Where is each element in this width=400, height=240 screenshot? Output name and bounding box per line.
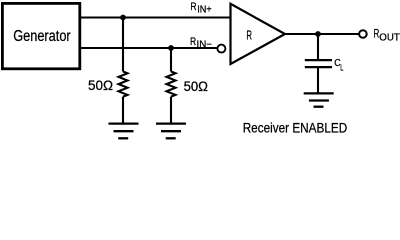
resistor R2 50ohm [167,72,176,97]
wire resistor R2 top lead [170,48,172,72]
ground G1 [109,124,139,139]
op-amp receiver R triangle [231,4,286,64]
wire capacitor CL bottom lead [317,68,319,93]
resistor R1 50ohm [119,72,128,97]
svg-text:IN+: IN+ [197,5,212,16]
svg-text:R: R [246,28,252,42]
node junction dot on RIN- [168,45,174,51]
wire output [285,33,359,35]
label RIN- [190,36,212,51]
label ROUT [374,26,400,43]
node junction dot on output [315,31,321,37]
svg-text:R: R [190,1,196,13]
svg-text:50Ω: 50Ω [184,79,208,94]
svg-text:L: L [340,62,343,72]
generator box [2,3,79,68]
label RIN+ [190,1,211,16]
wire RIN+ top [81,16,232,18]
ground G3 [304,93,334,106]
svg-text:OUT: OUT [379,33,400,44]
ground G2 [156,124,186,139]
terminal ROUT circle [359,30,367,38]
receiver inverting input bubble [217,45,225,53]
label CL [334,57,343,72]
wire resistor R1 bottom lead [122,97,124,123]
svg-text:IN−: IN− [197,40,213,51]
wire capacitor CL top lead [317,34,319,59]
svg-text:Receiver ENABLED: Receiver ENABLED [243,121,348,136]
svg-text:Generator: Generator [13,28,70,45]
wire resistor R2 bottom lead [170,97,172,123]
capacitor CL [305,60,332,67]
svg-text:R: R [190,36,196,48]
node junction dot on RIN+ [120,15,126,21]
svg-text:50Ω: 50Ω [88,78,113,93]
wire RIN- bottom [81,47,218,49]
wire resistor R1 top lead [122,18,124,72]
